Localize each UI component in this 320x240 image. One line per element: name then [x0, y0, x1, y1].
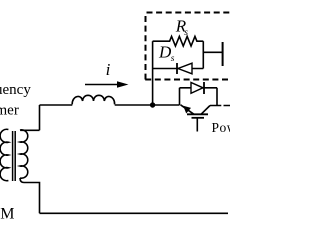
- svg-text:M: M: [0, 205, 14, 222]
- svg-text:s: s: [171, 54, 175, 64]
- svg-text:quency: quency: [0, 82, 31, 98]
- svg-text:mer: mer: [0, 102, 19, 118]
- svg-text:s: s: [184, 28, 188, 38]
- svg-text:i: i: [106, 60, 111, 79]
- svg-text:Power: Power: [212, 120, 231, 135]
